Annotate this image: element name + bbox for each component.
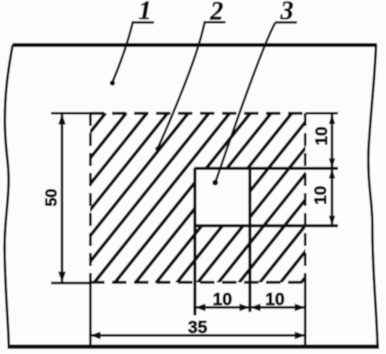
svg-text:10: 10: [213, 289, 233, 309]
label 3 underline: [275, 21, 297, 23]
extension line left edge of hatch down to 35 dim: [89, 283, 92, 346]
square 3 left edge + extension line: [193, 168, 196, 316]
extension line bottom-left for 50: [51, 282, 91, 285]
svg-text:1: 1: [139, 0, 152, 25]
leader line 1: [112, 23, 132, 83]
arrow right10 bottom down: [329, 216, 335, 226]
arrow right10 mid down: [329, 158, 335, 168]
svg-text:10: 10: [311, 186, 330, 205]
extension line right edge of hatch down to bottom border: [304, 283, 307, 347]
hatch area dashed outline bottom: [90, 281, 306, 284]
arrow bottom10 mid right: [239, 304, 250, 312]
leader dot 2: [155, 146, 160, 151]
leader dot 1: [110, 80, 115, 85]
hatch area 2 : diagonals: [0, 113, 386, 283]
wall bottom border: [8, 345, 380, 349]
square 3 bottom edge + extension line: [195, 224, 339, 227]
wall right break edge: [368, 45, 377, 347]
hatch area dashed outline top: [90, 112, 306, 115]
arrow right10 mid up: [329, 168, 335, 178]
square 3 right edge + extension line: [248, 168, 251, 312]
hatch area dashed outline right: [304, 113, 307, 283]
svg-text:2: 2: [209, 0, 223, 26]
hatch area dashed outline left: [89, 113, 92, 283]
svg-text:3: 3: [280, 0, 294, 25]
leader line 3: [216, 23, 276, 182]
dimension line bottom 10/10: [195, 306, 305, 309]
dimension line 35: [90, 334, 305, 337]
leader line 2: [158, 23, 205, 149]
arrow bottom10 left: [195, 304, 206, 312]
svg-text:10: 10: [265, 289, 285, 309]
square 3 top edge + extension line: [195, 167, 339, 170]
arrow bottom10 right: [295, 304, 306, 312]
extension line top-left for 50: [51, 112, 91, 115]
wall left break edge: [5, 45, 13, 347]
wall top border: [13, 43, 378, 47]
arrow bottom10 mid left: [250, 304, 261, 312]
dimension line 50: [61, 114, 64, 282]
label 1 underline: [132, 21, 155, 23]
svg-text:50: 50: [44, 189, 61, 207]
dimension line right 10/10: [331, 114, 334, 227]
arrow 35 left: [90, 332, 101, 340]
square 3 white interior: [195, 168, 251, 226]
label 2 underline: [204, 21, 226, 23]
arrow right10 top up: [329, 114, 335, 124]
svg-text:10: 10: [312, 127, 331, 146]
arrow 35 right: [295, 332, 306, 340]
arrow 50 top: [58, 114, 66, 125]
leader dot 3: [212, 180, 218, 186]
extension line top-right for 10: [306, 112, 339, 115]
arrow 50 bottom: [58, 272, 66, 283]
svg-text:35: 35: [188, 317, 208, 337]
